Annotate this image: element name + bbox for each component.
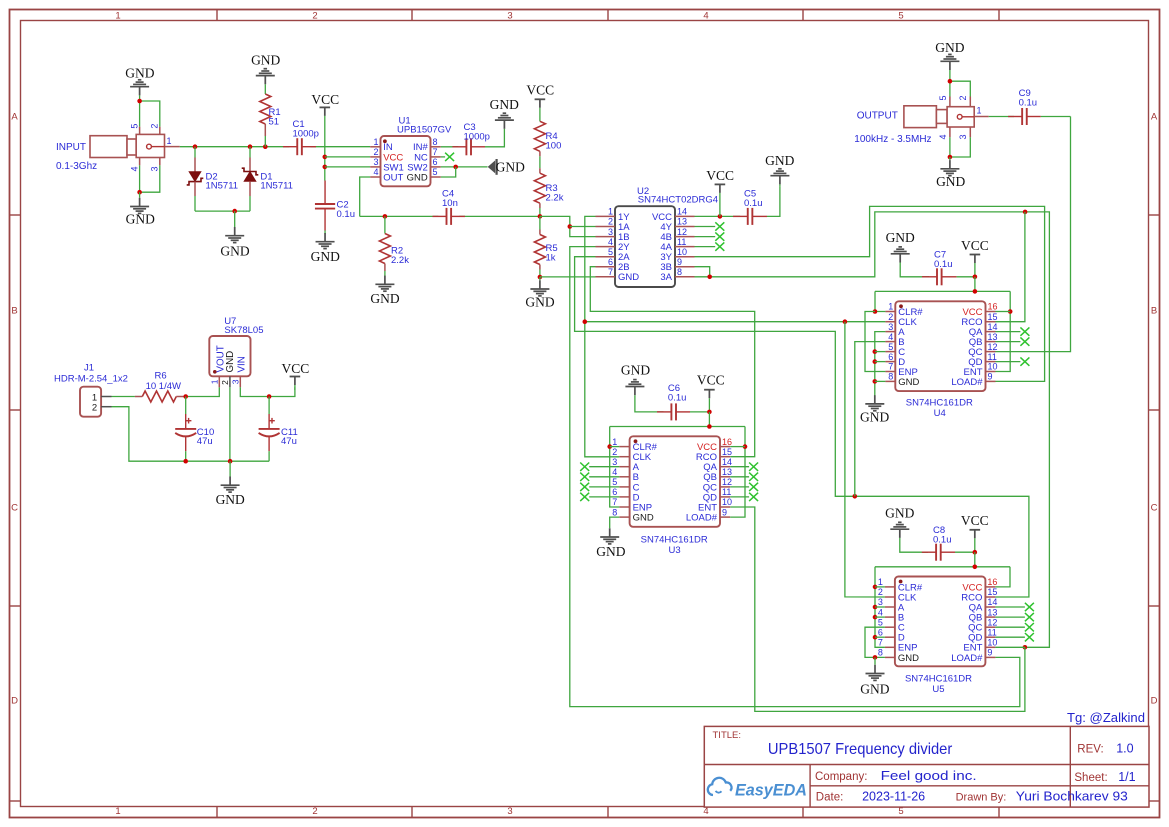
svg-text:13: 13 [722,467,732,477]
wire output bottom loop [949,137,951,157]
pin 4 U3 B [612,467,639,483]
svg-text:EasyEDA: EasyEDA [735,781,807,800]
label INPUT [56,142,86,153]
net 3A/3B wire [695,267,710,277]
pin 15 U3 RCO [696,447,732,463]
junction diode gnd [232,209,237,214]
junction U4 VCC pin16 [1008,309,1013,314]
svg-text:A: A [1151,112,1158,123]
svg-text:3A: 3A [660,272,672,283]
svg-text:3: 3 [878,597,883,607]
capacitor C4 10n [433,189,466,225]
svg-text:11: 11 [987,627,996,637]
capacitor C8 0.1u [922,525,955,561]
junction U4 CLR# [873,309,878,314]
no-connect U3 A left [580,463,619,471]
pin 8 U2 3A [660,267,694,283]
svg-text:3: 3 [507,806,512,817]
svg-text:GND: GND [407,172,428,183]
wire U1 pin5 to pin6 [441,167,456,177]
svg-text:0.1u: 0.1u [934,259,953,270]
wire U3 pin16 [730,446,745,448]
junction U1 SW1 [323,165,328,170]
power VCC (U5) [961,513,989,528]
pin 4 U4 B [885,332,904,348]
wire U1 pin4 OUT down [360,177,371,216]
no-connect U1 pin7 [441,153,454,161]
pin 6 U2 2B [596,257,630,273]
pin 10 U2 3Y [660,247,694,263]
ic U1 UPB1507GV [381,116,453,187]
wire U2 VCC to C5 [695,215,741,217]
wire U4 rail left leg [875,291,885,311]
svg-text:2: 2 [888,312,893,322]
svg-text:13: 13 [987,607,997,617]
drawn by value Yuri Bochkarev 93 [1016,790,1128,804]
svg-text:1000p: 1000p [464,132,490,143]
ic U4 SN74HC161DR [895,301,985,419]
wire to 1A [570,226,596,228]
pin 8 U4 GND [885,372,919,388]
pin 3 (input) [150,158,160,172]
pin 13 U2 4Y [660,217,694,233]
svg-text:7: 7 [888,362,893,372]
svg-text:2: 2 [958,95,968,100]
junction U4 C [873,349,878,354]
resistor R6 10 1/4W [135,370,184,402]
wire U4 rail right leg [996,291,1011,371]
title text UPB1507 Frequency divider [768,741,953,758]
no-connect U3 QB right [730,473,758,481]
junction R5 bottom [538,275,543,280]
svg-text:3: 3 [373,157,378,167]
connector J-INPUT body [90,134,165,157]
svg-text:VCC: VCC [961,513,989,528]
pin 5 (output) [938,95,950,106]
pin 2 U3 CLK [612,447,651,463]
resistor R3 2.2k [534,168,563,216]
pin 14 U2 VCC [652,207,695,223]
no-connect U3 QA right [730,463,758,471]
junction 1A [568,224,573,229]
net 3Y wire to U4 LOAD# [695,206,1045,381]
pin 16 U3 VCC [697,437,732,453]
svg-text:C: C [1151,503,1158,514]
svg-text:15: 15 [988,312,998,322]
svg-text:0.1-3Ghz: 0.1-3Ghz [56,161,97,172]
power VCC (U3) [697,372,725,387]
svg-text:U3: U3 [669,545,681,556]
svg-text:4: 4 [703,10,708,21]
wire U5 rail right leg [995,567,1010,587]
junction U4 rail [973,289,978,294]
svg-text:0.1u: 0.1u [668,393,687,404]
pin 11 U5 QD [968,627,997,643]
no-connect U3 QD right [730,493,758,501]
ic U5 SN74HC161DR [895,577,986,696]
svg-text:5: 5 [898,10,903,21]
svg-text:4: 4 [612,467,617,477]
rev value 1.0 [1116,742,1133,756]
ground GND (U4) [865,395,884,411]
pin 10 U4 ENT [964,362,998,378]
svg-text:5: 5 [878,617,883,627]
wire C9 to QC net [1041,116,1071,118]
wire U4 RCO up [996,212,1025,322]
pin 4 U5 B [878,607,904,623]
pin 11 U2 4A [660,237,694,253]
pin 8 U3 GND [612,507,654,523]
svg-text:2: 2 [220,380,230,385]
svg-text:1/1: 1/1 [1118,770,1135,784]
svg-text:4: 4 [373,167,378,177]
pin 7 U3 ENP [612,497,652,513]
pin 1 U4 CLR# [885,302,923,318]
svg-text:2: 2 [150,124,160,129]
wire U4 B branch [855,342,886,497]
svg-text:GND: GND [618,272,639,283]
label OUTPUT [857,110,898,121]
label REV: [1077,744,1103,756]
resistor R2 2.2k [379,216,409,275]
no-connect U5 QA [995,603,1034,611]
svg-text:1: 1 [115,10,120,21]
svg-text:U4: U4 [934,408,946,419]
svg-text:1: 1 [167,136,172,146]
sheet value 1/1 [1118,770,1135,784]
svg-text:11: 11 [988,352,997,362]
pin 5 U2 2A [596,247,631,263]
svg-text:1.0: 1.0 [1116,742,1133,756]
svg-text:11: 11 [722,487,731,497]
junction gnd row [228,459,233,464]
svg-text:GND: GND [633,513,654,524]
no-connect U2 pin12 [695,232,725,240]
wire U3 GND pin [610,517,620,528]
svg-text:5: 5 [608,247,613,257]
svg-text:12: 12 [988,342,998,352]
svg-text:51: 51 [269,116,280,127]
pin 5 U4 C [885,342,905,358]
wire J1 pin2 to gnd row [112,407,270,462]
svg-text:13: 13 [988,332,998,342]
pin 4 (input) [130,158,140,172]
svg-text:9: 9 [677,257,682,267]
svg-text:VCC: VCC [311,92,339,107]
svg-text:6: 6 [433,157,438,167]
wire U5 ENT row [995,646,1025,648]
svg-text:2: 2 [373,147,378,157]
wire U5 C to GND row [865,627,885,657]
svg-text:100kHz - 3.5MHz: 100kHz - 3.5MHz [854,134,931,145]
pin 15 U4 RCO [961,312,997,328]
svg-text:B: B [1151,306,1157,317]
svg-text:2: 2 [608,217,613,227]
pin 3 U2 1B [596,227,630,243]
pin 14 U3 QA [703,457,732,473]
pin 1 J1 [101,396,111,398]
junction C7/VCC [973,275,978,280]
power VCC (R4 column) [526,83,554,98]
svg-text:10: 10 [987,638,997,648]
svg-text:OUTPUT: OUTPUT [857,110,898,121]
wire U5 A pin [875,606,885,608]
svg-text:8: 8 [878,648,883,658]
svg-text:Yuri Bochkarev 93: Yuri Bochkarev 93 [1016,790,1128,804]
ic U2 SN74HCT02DRG4 [615,186,718,287]
label Drawn By: [956,792,1007,804]
connector J-OUTPUT body [904,106,974,128]
svg-text:11: 11 [677,237,686,247]
wire U3 rail right leg [730,427,745,518]
junction C6/VCC [707,410,712,415]
svg-text:6: 6 [878,627,883,637]
net 1Y to U4 CLK wire [585,321,886,323]
svg-text:1: 1 [612,437,617,447]
ground GND (C8) [885,506,914,521]
svg-text:15: 15 [722,447,732,457]
wire U5 vcc rail [974,552,976,567]
svg-text:D: D [11,696,18,707]
net 2B wire to U3 RCO [590,267,754,457]
junction U5 CLK branch [843,319,848,324]
pin 4 (output) [938,127,950,140]
svg-text:3: 3 [888,322,893,332]
junction R6/C10 [183,394,188,399]
junction U5 rail [973,565,978,570]
net 1Y wire [585,216,620,456]
junction U3 VCC pin16 [743,444,748,449]
svg-text:GND: GND [898,377,919,388]
svg-text:4: 4 [888,332,893,342]
svg-text:VCC: VCC [697,372,725,387]
wire VCC column [324,116,326,181]
svg-text:LOAD#: LOAD# [951,653,983,664]
ground GND (U3) [600,528,619,544]
svg-text:GND: GND [490,97,519,112]
svg-text:SK78L05: SK78L05 [224,325,263,336]
wire C3 to gnd [485,129,504,147]
pin 3 (output) [958,127,970,140]
svg-text:16: 16 [987,577,997,587]
no-connect U3 QC right [730,483,758,491]
wire U4 D [875,361,886,363]
svg-text:GND: GND [885,506,914,521]
svg-text:GND: GND [496,159,525,174]
wire R5 to U2 GND pin [540,276,596,278]
pin 15 U5 RCO [961,587,997,603]
label Tg: @Zalkind [1067,711,1145,725]
svg-text:J1: J1 [84,363,94,374]
svg-text:VCC: VCC [526,83,554,98]
junction U1 VCC [323,155,328,160]
pin 12 U2 4B [660,227,694,243]
pin 5 U5 C [878,617,905,633]
junction C10 bottom [183,459,188,464]
pin 2 U1 VCC [370,147,403,163]
pin 7 U4 ENP [885,362,917,378]
svg-text:Sheet:: Sheet: [1074,772,1107,784]
wire U5 B pin [875,616,885,618]
junction output bottom [948,155,953,160]
wire U5 ENT to U3 ENT [730,507,1025,711]
svg-text:2: 2 [612,447,617,457]
svg-text:1: 1 [115,806,120,817]
svg-text:GND: GND [220,243,249,258]
pin 13 U3 QB [703,467,732,483]
net QC wire to C9 [996,117,1071,352]
svg-text:SN74HCT02DRG4: SN74HCT02DRG4 [638,195,718,206]
svg-text:GND: GND [525,295,554,310]
wire C5 to gnd [767,186,780,216]
svg-text:LOAD#: LOAD# [686,513,718,524]
svg-text:1: 1 [977,106,982,116]
svg-text:3: 3 [608,227,613,237]
company value Feel good inc. [881,768,977,783]
ground GND (C3) [495,113,514,129]
wire input pin4/pin3 bottom loop [139,165,141,192]
no-connect U2 pin11 [695,242,725,250]
svg-text:UPB1507GV: UPB1507GV [397,124,452,135]
wire output top loop [949,72,951,97]
no-connect U5 QB [995,613,1034,621]
wire C8 left [900,538,928,552]
svg-text:GND: GND [860,409,889,424]
resistor R4 100 [534,108,561,168]
pin 7 U5 ENP [878,638,918,654]
svg-text:U5: U5 [932,684,944,695]
no-connect U3 D left [580,493,619,501]
svg-text:3: 3 [612,457,617,467]
svg-text:SN74HC161DR: SN74HC161DR [905,674,972,685]
ic U7 SK78L05 [209,316,263,377]
svg-text:HDR-M-2.54_1x2: HDR-M-2.54_1x2 [54,374,128,385]
svg-text:1: 1 [888,302,893,312]
power VCC (U7) [282,361,310,376]
svg-text:GND: GND [765,153,794,168]
svg-text:8: 8 [612,507,617,517]
svg-text:7: 7 [433,147,438,157]
svg-text:GND: GND [936,174,965,189]
net 2A wire to U5 RCO [575,257,1029,597]
wire U3 rail left leg [610,427,620,508]
svg-text:0.1u: 0.1u [1019,97,1038,108]
pin 5 (input) [130,124,140,135]
capacitor C7 0.1u [922,250,957,286]
svg-text:10 1/4W: 10 1/4W [146,381,181,392]
pin 6 U1 SW2 [407,157,441,173]
svg-text:4: 4 [878,607,883,617]
svg-text:D: D [1151,696,1158,707]
pin 14 U4 QA [969,322,998,338]
svg-text:0.1u: 0.1u [337,209,356,220]
label Sheet: [1074,772,1107,784]
svg-text:3: 3 [507,10,512,21]
capacitor C2 0.1u [315,181,355,231]
wire U5 CLK branch [845,322,885,597]
pin 1 U7 VOUT [209,376,219,387]
pin 16 U4 VCC [962,302,997,318]
wire U5 D pin [875,636,885,638]
pin 5 U1 GND [407,167,441,183]
diode D1 1N5711 [242,147,293,211]
ground GND (output bottom) [940,157,959,176]
wire U3 vcc rail [708,412,710,427]
no-connect U2 pin13 [695,222,725,230]
junction U3 CLR# [607,444,612,449]
svg-text:8: 8 [433,137,438,147]
svg-text:10: 10 [677,247,687,257]
pin 3 U4 A [885,322,905,338]
pin 2 U2 1A [596,217,631,233]
title block [704,726,1149,807]
svg-text:1N5711: 1N5711 [206,181,239,192]
svg-text:12: 12 [987,617,997,627]
svg-text:10n: 10n [442,198,458,209]
wire J1 pin1 to R6 [112,396,135,398]
wire C7 right to VCC [957,276,975,278]
pin 1 U2 1Y [596,207,631,223]
junction 3A/3B [707,275,712,280]
junction U5 GND pin [873,655,878,660]
connector J1 HDR-M-2.54_1x2 [54,363,128,417]
svg-text:15: 15 [987,587,997,597]
junction input bottom [137,190,142,195]
junction D1 [248,144,253,149]
pin 11 U4 QD [968,352,997,368]
pin 7 U1 NC [414,147,441,163]
pin 14 U5 QA [969,597,998,613]
resistor R1 51 [260,85,281,147]
pin 3 U1 SW1 [370,157,404,173]
svg-text:1k: 1k [546,253,556,264]
label Company: [815,771,867,783]
diode D2 1N5711 [187,147,238,211]
wire mid row [360,215,439,217]
svg-text:0.1u: 0.1u [933,535,952,546]
junction U4 B branch [853,494,858,499]
junction C8/VCC [973,550,978,555]
no-connect U4 QA [996,327,1030,335]
wire U5 rail left leg [875,567,885,648]
svg-text:5: 5 [433,167,438,177]
power VCC (C1/C2 column) [311,92,339,107]
svg-text:5: 5 [612,477,617,487]
svg-text:SN74HC161DR: SN74HC161DR [641,534,708,545]
wire U4 CLR#-ENP jog [865,312,885,372]
no-connect U3 C left [580,483,619,491]
svg-text:10: 10 [988,362,998,372]
svg-text:5: 5 [938,95,948,100]
svg-text:GND: GND [251,52,280,67]
capacitor C6 0.1u [657,383,690,420]
ground GND (input top) [125,65,154,80]
svg-text:12: 12 [722,477,732,487]
pin 3 U7 VIN [230,376,240,387]
capacitor C3 1000p [452,122,490,155]
svg-text:0.1u: 0.1u [744,198,763,209]
resistor R5 1k [534,216,557,277]
svg-text:2: 2 [878,587,883,597]
svg-text:4: 4 [938,134,948,139]
svg-text:2: 2 [92,402,97,413]
svg-text:7: 7 [608,267,613,277]
wire U3 CLR# pin [610,446,620,448]
wire U4 C [875,351,886,353]
svg-text:Date:: Date: [816,792,844,804]
ground GND (C7) [886,230,915,245]
pin 4 U1 OUT [370,167,403,183]
